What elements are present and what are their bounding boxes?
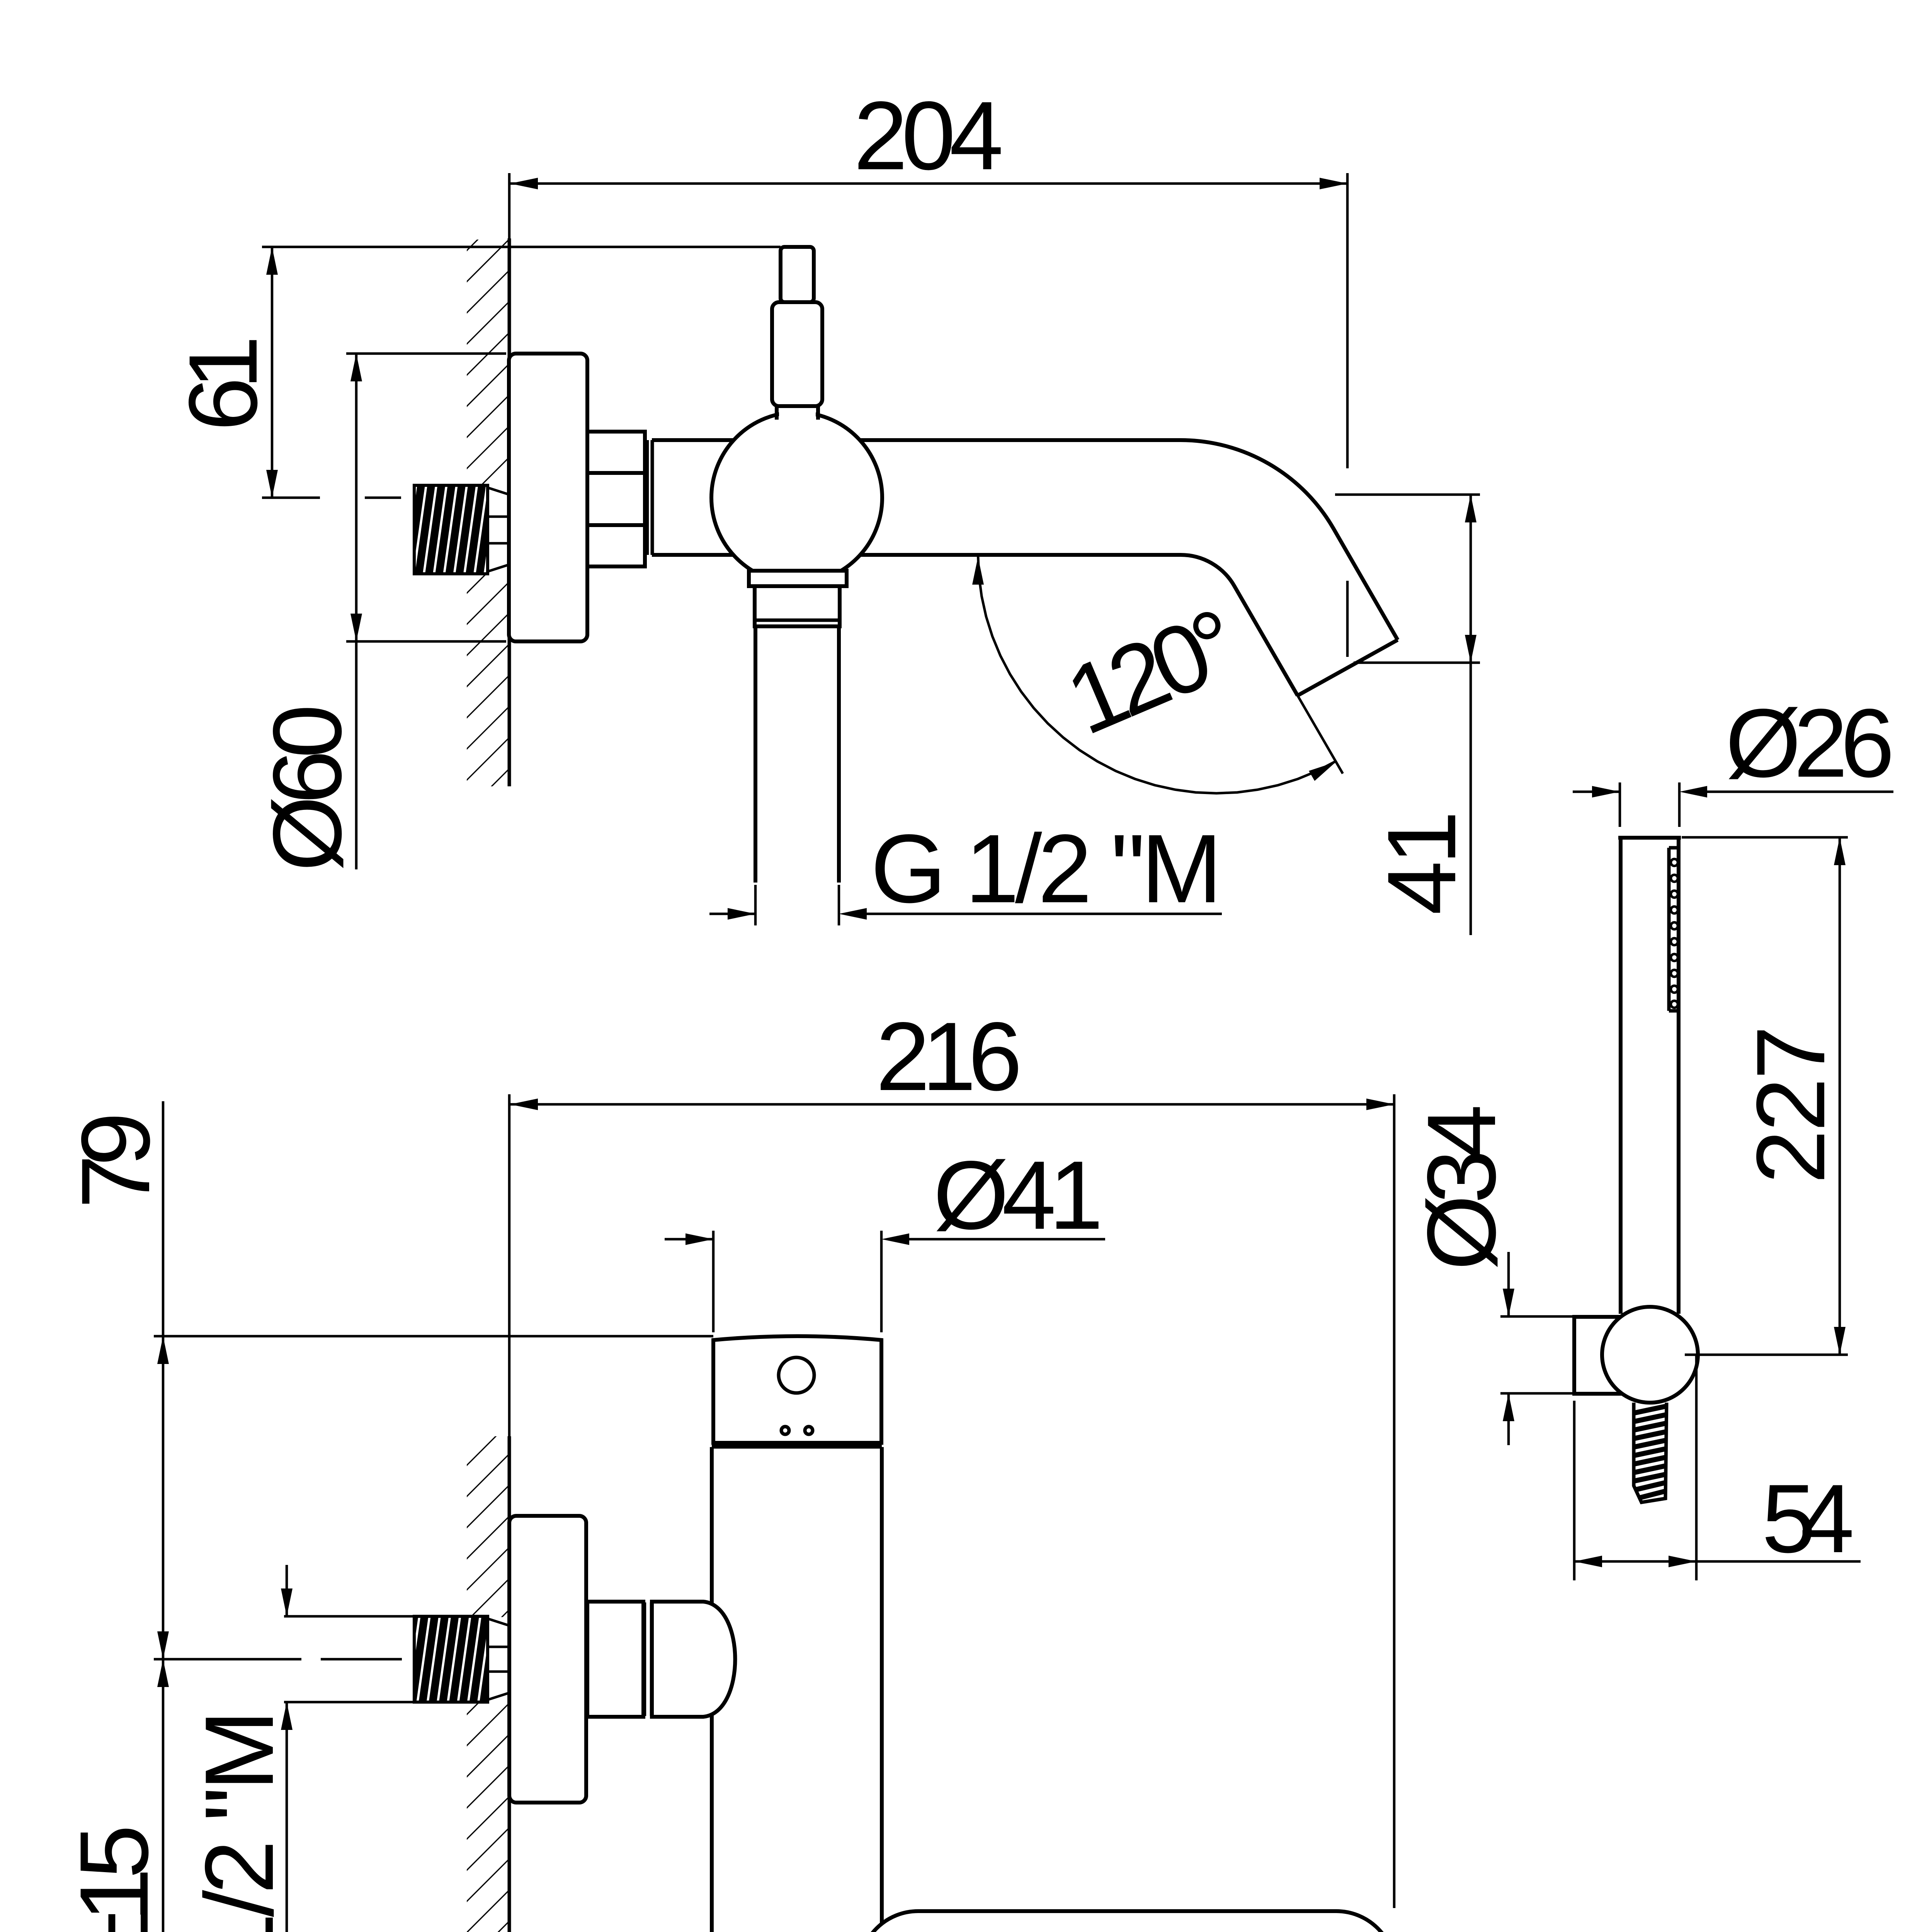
hose outlet tube lines xyxy=(754,626,757,883)
dim O41 extension lines xyxy=(712,1231,715,1332)
washer lines between nut and body xyxy=(646,440,649,555)
dim 216 arrow left xyxy=(510,1099,538,1110)
wall hatch band xyxy=(467,240,509,786)
body left edge (front view) xyxy=(710,1447,714,1932)
dim G1/2 arrow right (tip at tube right edge) xyxy=(839,908,867,920)
dim 150 arrow top xyxy=(157,1659,169,1687)
dim 204 arrow right xyxy=(1320,178,1347,189)
body tube left end edge xyxy=(651,440,654,555)
svg-text:Ø41: Ø41 xyxy=(933,1141,1103,1250)
handle bar (stadium) xyxy=(859,1911,1395,1932)
svg-text:227: 227 xyxy=(1737,1026,1845,1184)
dim 61 line xyxy=(271,247,274,498)
body tube top line xyxy=(652,438,1180,442)
white clear between block and wall (top view) xyxy=(489,486,509,573)
dim 41 extension bottom xyxy=(1354,662,1480,664)
upper inlet centerline xyxy=(154,1658,301,1661)
upper wall flange (front view) xyxy=(509,1516,586,1803)
dim 216 line xyxy=(510,1103,1394,1106)
upper washer lines xyxy=(644,1602,646,1716)
dim O26 line left tail xyxy=(1573,791,1620,793)
svg-text:G 1/2 "M: G 1/2 "M xyxy=(185,1710,294,1932)
dim 150+-15 line xyxy=(162,1659,165,1932)
dim 79 line xyxy=(162,1101,165,1659)
svg-text:61: 61 xyxy=(169,335,277,431)
dim O60 line xyxy=(355,354,358,869)
dim 204 extension right lower (over spout tip) xyxy=(1346,581,1349,657)
bracket (wall holder) xyxy=(1574,1317,1628,1394)
dim G1/2 line right tail xyxy=(867,913,1222,915)
dim O26 extension lines xyxy=(1619,782,1621,827)
cap two dots xyxy=(781,1427,789,1434)
dim 54 right extension (ball right edge) xyxy=(1695,1355,1698,1580)
hex nut (top view) xyxy=(587,432,645,566)
upper inlet pipe shank lines xyxy=(284,1615,414,1618)
dim 227 extension bottom (ball center) xyxy=(1685,1354,1848,1356)
dim 204 arrow left xyxy=(510,178,538,189)
dim O41 line left tail xyxy=(665,1238,713,1241)
hand shower wand white body xyxy=(1621,836,1679,1354)
inlet stud thread block (top view) xyxy=(414,485,488,574)
dim O34 line upper xyxy=(1507,1252,1510,1316)
cap of mixer (front view) xyxy=(713,1336,881,1443)
thread runout lines to wall (top view) xyxy=(488,488,509,495)
120 arc arrow left xyxy=(972,557,984,585)
dim 41 arrow top xyxy=(1465,495,1476,522)
dim O26 arrow right xyxy=(1679,786,1707,798)
dim 61 arrow top xyxy=(266,247,278,275)
wand left edge xyxy=(1619,836,1623,1314)
upper thread runout lines xyxy=(488,1619,509,1626)
dim O60 extension bottom xyxy=(346,640,506,643)
120 arc arrow right xyxy=(1309,762,1336,781)
G1/2 upper arrow top xyxy=(281,1588,293,1616)
svg-text:Ø26: Ø26 xyxy=(1725,689,1895,798)
upper inlet dome connector xyxy=(652,1602,735,1717)
120 degree arc xyxy=(978,555,1336,793)
dim O26 arrow left xyxy=(1592,786,1620,798)
body tube bottom line xyxy=(652,553,1180,557)
spout outer curve xyxy=(1180,440,1398,640)
hose outlet adapter xyxy=(755,586,840,626)
dim 204 extension left xyxy=(508,173,511,238)
hose thread nipple outline xyxy=(1634,1403,1667,1502)
dim O41 line right tail xyxy=(909,1238,1105,1241)
dim 41 arrow bottom xyxy=(1465,635,1476,663)
spray nozzle dots xyxy=(1671,859,1678,1008)
dim O34 extension lines xyxy=(1500,1315,1574,1318)
dim O34 arrow bottom xyxy=(1503,1393,1514,1421)
dim G1/2 (top view) line left tail xyxy=(709,913,755,915)
dim 216 extension right xyxy=(1393,1094,1396,1908)
120 leg extension line xyxy=(1298,696,1343,774)
spout inner curve xyxy=(1180,555,1298,696)
svg-text:Ø34: Ø34 xyxy=(1407,1104,1516,1270)
white clear between upper block and wall xyxy=(489,1617,509,1701)
dim G1/2 extension lines xyxy=(754,885,757,925)
dim 54 line right tail xyxy=(1696,1560,1861,1563)
centerline of inlet (top view) xyxy=(365,497,401,499)
wall surface line xyxy=(508,238,511,786)
svg-text:Ø60: Ø60 xyxy=(253,704,362,872)
svg-text:G 1/2 "M: G 1/2 "M xyxy=(871,815,1222,923)
dim O34 arrow top xyxy=(1503,1289,1514,1316)
upper spacer cylinder xyxy=(587,1602,643,1717)
dim 61 extension top (to handle knob) xyxy=(262,246,781,248)
G1/2 upper: line below xyxy=(286,1702,288,1932)
svg-text:204: 204 xyxy=(854,82,1004,190)
dim 227 extension top xyxy=(1682,836,1848,839)
adapter chamfer line xyxy=(756,619,838,622)
dim 61 extension bottom (axis) xyxy=(262,497,320,499)
dim O60 arrow top xyxy=(350,354,362,381)
handle knob xyxy=(781,247,814,302)
wall hatch band (front view) xyxy=(467,1436,509,1932)
handle lever xyxy=(772,302,822,406)
dim G1/2 arrow left (tip at tube left edge) xyxy=(728,908,755,920)
dim G1/2 upper: line above xyxy=(286,1565,288,1616)
spray plate bottom tick xyxy=(1669,1009,1679,1013)
dim 41 extension top xyxy=(1335,493,1480,496)
dim 204 extension right upper xyxy=(1346,173,1349,468)
spray plate top tick xyxy=(1669,846,1679,850)
svg-text:41: 41 xyxy=(1368,811,1476,915)
handle neck lines xyxy=(775,404,779,420)
dim O60 extension top xyxy=(346,352,506,355)
dim 216 arrow right xyxy=(1366,1099,1394,1110)
dim O41 arrow right xyxy=(881,1233,909,1245)
G1/2 upper arrow bottom xyxy=(281,1702,293,1730)
dim 204 line xyxy=(510,182,1347,185)
svg-text:150 ±15: 150 ±15 xyxy=(60,1825,168,1932)
upper inlet thread block xyxy=(414,1616,488,1702)
wall flange escutcheon (top view) xyxy=(509,354,587,641)
hose nipple thread bars xyxy=(1634,1406,1667,1498)
dim 54 arrow left xyxy=(1574,1556,1602,1567)
dim O41 arrow left xyxy=(685,1233,713,1245)
hex nut flat lines xyxy=(587,471,645,475)
svg-text:216: 216 xyxy=(876,1002,1022,1111)
dim 79 arrow bottom xyxy=(157,1631,169,1659)
dim O26 line right tail xyxy=(1707,791,1893,793)
dim 227 arrow top xyxy=(1834,837,1846,865)
white gap for handle neck over ball top xyxy=(779,398,816,421)
dim O60 arrow bottom xyxy=(350,614,362,641)
wall surface line (front view) xyxy=(508,1436,511,1932)
dim 41 line xyxy=(1470,495,1472,935)
svg-text:54: 54 xyxy=(1762,1464,1854,1573)
dim 227 line xyxy=(1839,837,1841,1355)
body right edge (front view) xyxy=(880,1447,884,1932)
dim 227 arrow bottom xyxy=(1834,1327,1846,1355)
mixing ball (top view) xyxy=(711,412,882,583)
dim 61 arrow bottom xyxy=(266,470,278,498)
spray face plate line xyxy=(1667,848,1671,1011)
wand top edge xyxy=(1618,836,1681,840)
dim 79 extension top (cap top level) xyxy=(154,1335,713,1338)
svg-text:79: 79 xyxy=(61,1112,170,1209)
hose outlet ring under ball xyxy=(749,571,847,586)
dim O34 line lower xyxy=(1507,1393,1510,1445)
wand right edge xyxy=(1677,836,1681,1314)
dim 54 left extension xyxy=(1573,1401,1576,1580)
holder ball joint xyxy=(1602,1307,1698,1403)
dim 216 extension left xyxy=(508,1094,511,1436)
spout tip face xyxy=(1298,640,1398,696)
cap circle detail xyxy=(779,1357,814,1393)
dim 54 arrow right xyxy=(1669,1556,1696,1567)
dim 79 arrow top xyxy=(157,1336,169,1364)
dim 54 line xyxy=(1574,1560,1696,1563)
cap bottom thick joint line xyxy=(712,1442,882,1449)
